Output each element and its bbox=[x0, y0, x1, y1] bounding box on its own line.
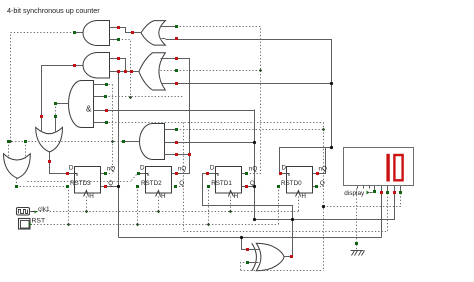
svg-text:4-bit synchronous up counter: 4-bit synchronous up counter bbox=[7, 6, 100, 15]
svg-text:H: H bbox=[89, 193, 94, 200]
svg-text:RSTD0: RSTD0 bbox=[281, 180, 302, 187]
svg-text:Q: Q bbox=[108, 180, 113, 187]
svg-text:nQ: nQ bbox=[178, 166, 187, 173]
svg-text:RSTD1: RSTD1 bbox=[211, 180, 232, 187]
svg-text:H: H bbox=[234, 193, 239, 200]
svg-text:RSTD3: RSTD3 bbox=[70, 180, 91, 187]
svg-text:D: D bbox=[210, 165, 215, 172]
svg-text:&: & bbox=[86, 105, 92, 114]
svg-text:nQ: nQ bbox=[249, 166, 258, 173]
svg-text:D: D bbox=[140, 165, 145, 172]
svg-text:H: H bbox=[161, 193, 166, 200]
svg-text:nQ: nQ bbox=[319, 166, 328, 173]
svg-text:display: display bbox=[344, 190, 365, 197]
svg-text:D: D bbox=[282, 165, 287, 172]
svg-text:RST: RST bbox=[32, 218, 46, 225]
svg-text:Q: Q bbox=[320, 180, 325, 187]
svg-text:D: D bbox=[69, 165, 74, 172]
svg-text:RSTD2: RSTD2 bbox=[141, 180, 162, 187]
svg-text:H: H bbox=[301, 193, 306, 200]
svg-text:nQ: nQ bbox=[107, 166, 116, 173]
svg-text:clk1: clk1 bbox=[38, 206, 50, 213]
svg-text:Q: Q bbox=[179, 180, 184, 187]
